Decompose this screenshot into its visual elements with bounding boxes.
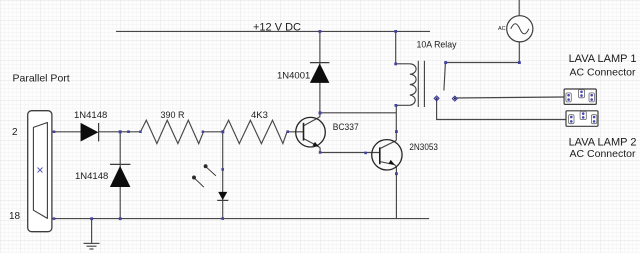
svg-text:AC Connector: AC Connector (570, 67, 636, 79)
svg-text:390 R: 390 R (161, 110, 185, 121)
svg-text:AC Connector: AC Connector (570, 148, 636, 160)
svg-text:Parallel Port: Parallel Port (13, 73, 70, 85)
svg-text:18: 18 (9, 211, 21, 222)
svg-text:1N4001: 1N4001 (277, 71, 310, 82)
svg-text:10A Relay: 10A Relay (417, 40, 457, 51)
svg-text:4K3: 4K3 (251, 110, 268, 121)
svg-text:+12 V DC: +12 V DC (253, 22, 301, 34)
svg-text:1N4148: 1N4148 (75, 171, 108, 182)
svg-text:LAVA LAMP 2: LAVA LAMP 2 (569, 137, 637, 149)
svg-text:2: 2 (12, 127, 18, 138)
svg-text:2N3053: 2N3053 (409, 142, 438, 153)
svg-text:BC337: BC337 (333, 122, 359, 133)
svg-text:LAVA LAMP 1: LAVA LAMP 1 (569, 53, 637, 65)
svg-text:AC: AC (498, 26, 506, 32)
svg-text:1N4148: 1N4148 (74, 110, 107, 121)
